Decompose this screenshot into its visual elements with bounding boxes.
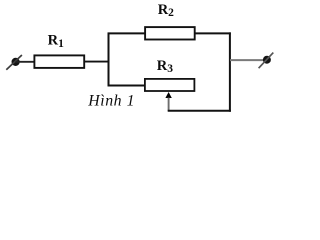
wire R2 to right junction <box>194 32 231 34</box>
wire junction to R2 <box>108 32 146 34</box>
wire left terminal to R1 <box>16 61 35 63</box>
resistor R3 (rheostat body) <box>145 79 195 91</box>
terminal (left probe dot with slash) <box>6 55 22 70</box>
terminal (right probe dot with slash) <box>259 53 274 69</box>
wire right junction to right terminal (grey) <box>230 59 264 61</box>
left junction vertical wire <box>108 33 110 87</box>
resistor R2 <box>145 27 195 39</box>
wiper arrow shaft (grey) <box>168 98 170 111</box>
right junction vertical wire <box>229 32 231 111</box>
wiper arrow head of R3 <box>165 92 171 98</box>
wire R1 to left junction <box>84 61 109 63</box>
svg-text:Hình 1: Hình 1 <box>87 93 135 110</box>
wire wiper to right junction (bottom) <box>168 110 231 112</box>
resistor R1 <box>34 55 84 68</box>
wire junction to R3 <box>108 85 146 87</box>
